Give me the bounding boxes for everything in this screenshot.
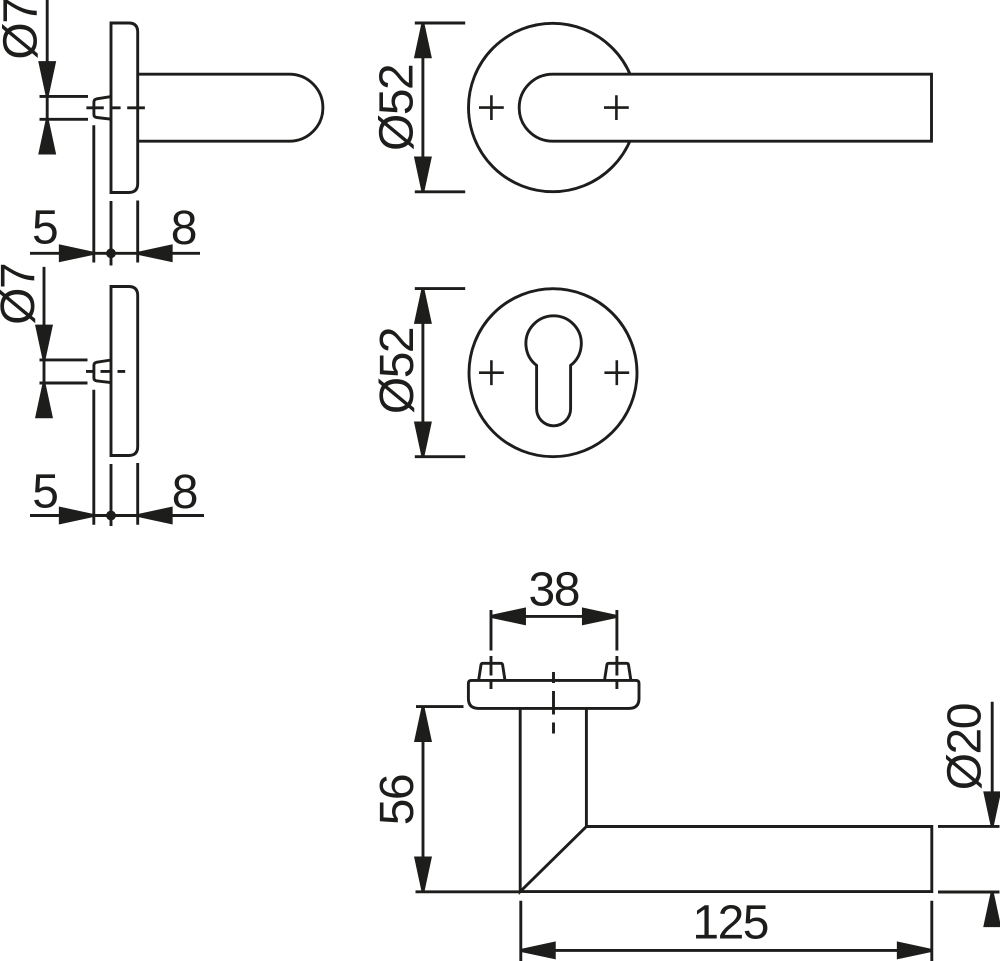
dim Ø52 B: line (421, 23, 424, 192)
dim 5/8 C: dimension line (30, 514, 204, 517)
rose A (111, 23, 138, 193)
svg-text:125: 125 (692, 897, 768, 950)
lever B (519, 74, 931, 141)
svg-text:56: 56 (371, 775, 424, 825)
dim Ø20 E: line and ticks (938, 702, 1000, 892)
screw E right (605, 663, 631, 680)
dim Ø7 A: arrows (40, 63, 54, 97)
cross mark D left (479, 360, 504, 385)
rose circle B (469, 23, 637, 191)
dim 5/8 C: extension lines (94, 390, 138, 526)
dim Ø7 C: extension lines (40, 360, 88, 383)
dim Ø7 C: line (43, 267, 46, 417)
cross mark B left (479, 95, 504, 120)
mounting plate E (468, 680, 639, 708)
screw C (94, 360, 111, 383)
svg-text:Ø52: Ø52 (371, 328, 424, 414)
dim Ø52 B: ticks (415, 23, 465, 192)
centerline A (86, 106, 144, 109)
dim Ø7 A: line (46, 0, 49, 153)
cross mark B right (604, 95, 629, 120)
svg-text:5: 5 (32, 201, 57, 254)
svg-text:Ø52: Ø52 (371, 65, 424, 151)
dim Ø52 D: ticks (415, 289, 465, 457)
screw A (94, 97, 111, 120)
handle profile E (520, 708, 932, 891)
handle neck A (138, 74, 323, 141)
dim 5/8 C: arrows and dot (60, 508, 94, 522)
dim 56 E: line (422, 707, 425, 892)
svg-text:Ø7: Ø7 (0, 0, 48, 60)
cross mark D right (604, 360, 629, 385)
svg-text:Ø7: Ø7 (0, 264, 45, 325)
svg-text:8: 8 (171, 202, 196, 255)
dim Ø52 D: line (421, 289, 424, 457)
screw E left (479, 663, 505, 680)
svg-text:8: 8 (172, 466, 197, 519)
dim 5/8 A: arrows and dot (60, 246, 94, 260)
dim 125 E: extension lines (521, 901, 932, 961)
dim 125 E: line (521, 949, 932, 952)
dim Ø7 C: arrows (37, 326, 51, 360)
dim Ø7 A: extension lines (40, 96, 89, 119)
dim 5/8 A: extension lines (94, 125, 138, 265)
rose circle D (469, 289, 637, 457)
dim 38 E: line (491, 615, 617, 618)
svg-text:5: 5 (32, 465, 57, 518)
screw centerline E left (490, 610, 493, 689)
dim 5/8 A: dimension line (30, 252, 200, 255)
dim 56 E: ticks (416, 707, 520, 892)
svg-text:38: 38 (529, 564, 579, 617)
centerline C (86, 370, 125, 373)
plate centerline E (552, 672, 555, 734)
rose C (111, 287, 138, 456)
screw centerline E right (615, 610, 618, 689)
svg-text:Ø20: Ø20 (939, 704, 992, 790)
euro profile keyhole D (526, 316, 581, 426)
